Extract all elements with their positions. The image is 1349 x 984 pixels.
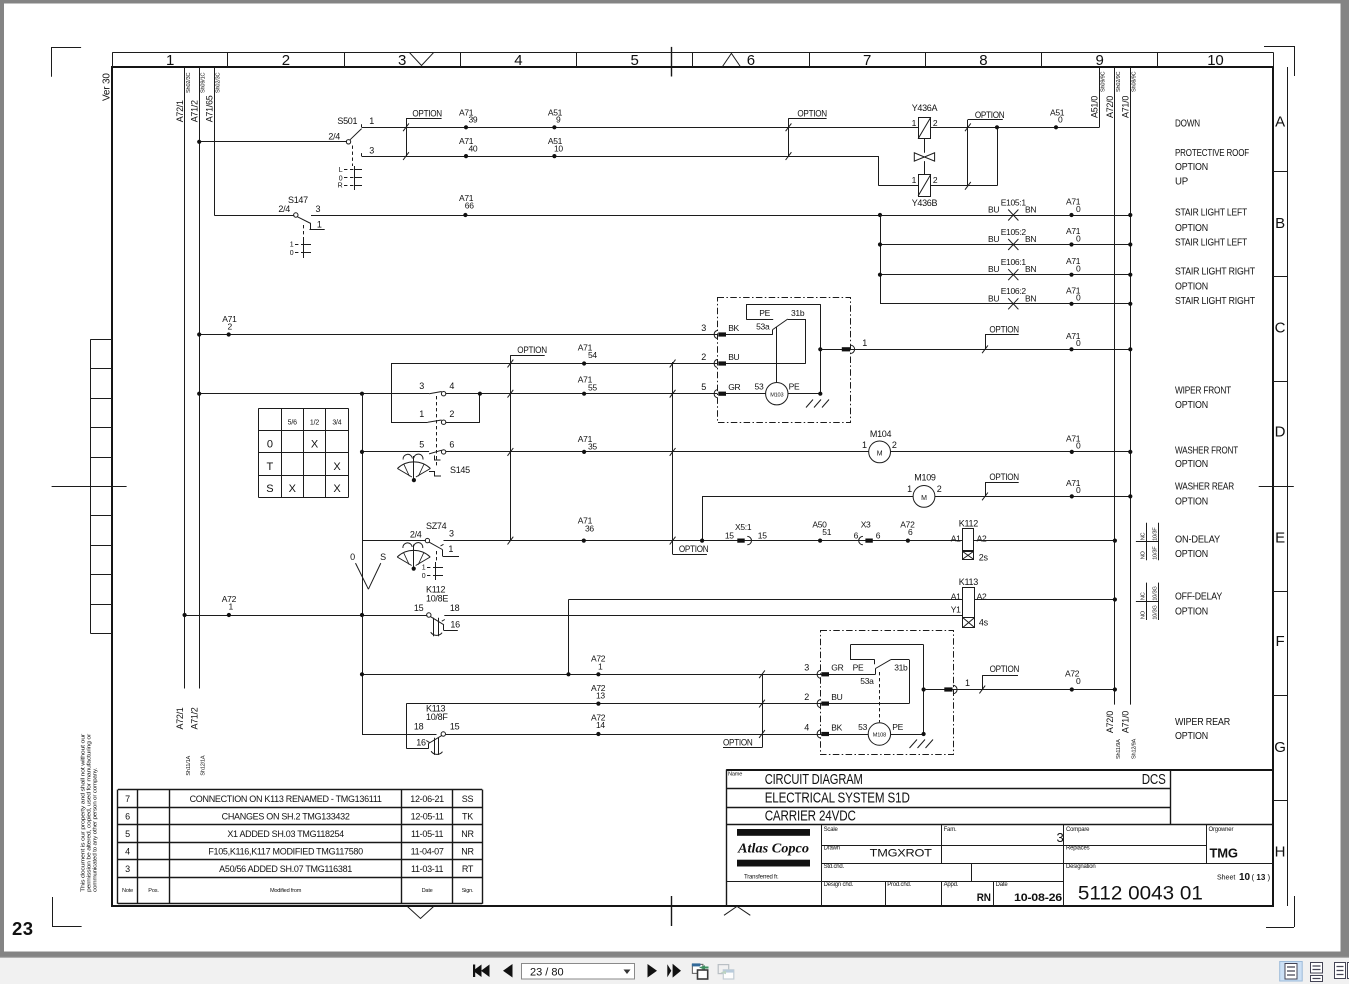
svg-text:Compare: Compare: [1066, 827, 1090, 833]
svg-text:Sheet: Sheet: [1217, 875, 1235, 882]
svg-text:K113: K113: [959, 577, 978, 587]
svg-text:0: 0: [1076, 338, 1081, 348]
svg-text:OPTION: OPTION: [517, 345, 547, 355]
svg-text:Fam.: Fam.: [944, 827, 957, 833]
svg-text:A71/0: A71/0: [1121, 96, 1131, 118]
svg-text:9: 9: [556, 115, 561, 125]
svg-text:OPTION: OPTION: [1175, 496, 1208, 507]
svg-text:2: 2: [933, 175, 938, 185]
svg-text:OPTION: OPTION: [1175, 607, 1208, 618]
svg-text:7: 7: [863, 52, 871, 69]
svg-text:0: 0: [1076, 676, 1081, 686]
svg-text:6: 6: [908, 527, 913, 537]
svg-text:Sh08/9C: Sh08/9C: [1132, 71, 1138, 92]
svg-text:14: 14: [596, 720, 605, 730]
svg-text:6: 6: [449, 440, 454, 450]
svg-text:A71/2: A71/2: [189, 707, 199, 729]
svg-text:4: 4: [449, 381, 454, 391]
svg-text:Sh09/1C: Sh09/1C: [200, 72, 206, 93]
svg-text:10: 10: [1239, 872, 1251, 883]
svg-text:A1: A1: [951, 592, 961, 602]
svg-text:2: 2: [449, 409, 454, 419]
svg-text:15: 15: [450, 722, 460, 732]
svg-text:10/3F: 10/3F: [1153, 527, 1159, 541]
svg-text:12-05-11: 12-05-11: [411, 812, 444, 822]
svg-text:STAIR LIGHT LEFT: STAIR LIGHT LEFT: [1175, 237, 1247, 248]
svg-text:D: D: [1275, 424, 1286, 441]
svg-text:BU: BU: [988, 205, 999, 215]
svg-text:2: 2: [282, 52, 290, 69]
svg-text:2s: 2s: [979, 553, 989, 563]
svg-text:Date: Date: [996, 882, 1009, 888]
svg-text:X: X: [311, 439, 319, 451]
svg-text:18: 18: [414, 722, 424, 732]
svg-text:OPTION: OPTION: [412, 108, 442, 118]
svg-text:12-06-21: 12-06-21: [410, 794, 444, 804]
svg-text:Pos.: Pos.: [148, 888, 159, 894]
svg-text:BU: BU: [988, 264, 999, 274]
svg-text:WIPER REAR: WIPER REAR: [1175, 717, 1230, 728]
svg-text:1: 1: [598, 661, 603, 671]
svg-text:Y436B: Y436B: [912, 198, 938, 208]
svg-text:NC: NC: [1141, 532, 1147, 540]
svg-text:16: 16: [416, 737, 426, 747]
svg-text:Appd.: Appd.: [944, 882, 959, 888]
svg-text:4: 4: [125, 847, 130, 857]
svg-text:Sh12/9A: Sh12/9A: [1132, 738, 1138, 759]
svg-text:BN: BN: [1025, 293, 1036, 303]
svg-text:TMGXROT: TMGXROT: [870, 848, 933, 860]
svg-text:A71/2: A71/2: [189, 100, 199, 122]
svg-text:10/8F: 10/8F: [426, 712, 448, 722]
svg-text:CHANGES ON SH.2 TMG133432: CHANGES ON SH.2 TMG133432: [222, 812, 350, 822]
svg-text:Atlas Copco: Atlas Copco: [737, 841, 809, 856]
svg-text:E106:1: E106:1: [1001, 257, 1027, 267]
svg-text:A2: A2: [977, 592, 987, 602]
svg-text:10-08-26: 10-08-26: [1014, 892, 1062, 904]
svg-text:10/3G: 10/3G: [1153, 586, 1159, 600]
svg-text:Drawn: Drawn: [824, 846, 840, 852]
svg-text:STAIR LIGHT RIGHT: STAIR LIGHT RIGHT: [1175, 266, 1255, 277]
svg-text:Scale: Scale: [824, 827, 839, 833]
svg-text:1: 1: [912, 175, 917, 185]
svg-text:OPTION: OPTION: [990, 664, 1020, 674]
svg-text:PROTECTIVE ROOF: PROTECTIVE ROOF: [1175, 148, 1249, 159]
svg-text:X5:1: X5:1: [735, 522, 752, 532]
svg-text:Modified from: Modified from: [270, 888, 302, 894]
svg-text:1: 1: [369, 116, 374, 126]
svg-text:2: 2: [892, 440, 897, 450]
svg-text:0: 0: [339, 175, 343, 182]
svg-text:3: 3: [804, 663, 809, 673]
svg-text:10/3G: 10/3G: [1153, 605, 1159, 619]
svg-text:M103: M103: [770, 392, 783, 398]
svg-text:6: 6: [854, 530, 859, 540]
svg-text:Orgowner: Orgowner: [1209, 827, 1234, 833]
svg-text:2: 2: [701, 352, 706, 362]
svg-text:E106:2: E106:2: [1001, 286, 1027, 296]
svg-text:2: 2: [937, 484, 942, 494]
svg-text:Name: Name: [728, 772, 742, 778]
svg-text:3: 3: [449, 529, 454, 539]
svg-text:40: 40: [469, 143, 478, 153]
svg-text:Transferred fr.: Transferred fr.: [744, 875, 779, 881]
svg-text:A2: A2: [977, 534, 987, 544]
svg-text:S: S: [266, 483, 273, 495]
svg-text:5: 5: [419, 440, 424, 450]
svg-text:4: 4: [804, 722, 809, 732]
svg-text:BU: BU: [728, 352, 739, 362]
svg-text:7: 7: [125, 794, 130, 804]
svg-text:Sh11/1A: Sh11/1A: [186, 755, 192, 775]
svg-text:1: 1: [290, 242, 294, 249]
svg-text:55: 55: [588, 382, 597, 392]
svg-text:1: 1: [317, 220, 322, 230]
svg-text:23 / 80: 23 / 80: [530, 966, 564, 978]
svg-text:10/3F: 10/3F: [1153, 546, 1159, 560]
svg-text:OPTION: OPTION: [1175, 400, 1208, 411]
svg-text:BN: BN: [1025, 234, 1036, 244]
svg-text:Design chd.: Design chd.: [824, 882, 854, 888]
svg-text:B: B: [1275, 215, 1285, 232]
svg-text:M104: M104: [870, 429, 892, 439]
svg-text:NO: NO: [1141, 610, 1147, 619]
svg-text:1: 1: [965, 678, 970, 688]
svg-text:L: L: [339, 167, 343, 174]
svg-text:G: G: [1274, 739, 1285, 756]
svg-text:DCS: DCS: [1142, 771, 1166, 788]
svg-text:9: 9: [1096, 52, 1104, 69]
svg-text:CARRIER 24VDC: CARRIER 24VDC: [765, 807, 856, 824]
svg-text:1: 1: [862, 338, 867, 348]
svg-text:1: 1: [419, 409, 424, 419]
svg-text:F105,K116,K117 MODIFIED TMG117: F105,K116,K117 MODIFIED TMG117580: [208, 847, 363, 857]
svg-text:BK: BK: [728, 323, 739, 333]
svg-text:BN: BN: [1025, 264, 1036, 274]
svg-text:BN: BN: [1025, 205, 1036, 215]
svg-text:2/4: 2/4: [410, 530, 422, 540]
svg-text:11-05-11: 11-05-11: [411, 829, 444, 839]
svg-text:PE: PE: [789, 381, 800, 391]
svg-text:GR: GR: [728, 382, 740, 392]
svg-text:X: X: [333, 483, 341, 495]
svg-text:STAIR LIGHT LEFT: STAIR LIGHT LEFT: [1175, 208, 1247, 219]
svg-text:Designation: Designation: [1066, 864, 1096, 870]
svg-text:A72/0: A72/0: [1105, 96, 1115, 118]
svg-text:Date: Date: [422, 888, 433, 894]
svg-text:Sh02/3C: Sh02/3C: [186, 72, 192, 93]
svg-text:2/4: 2/4: [328, 131, 340, 141]
svg-text:0: 0: [1076, 441, 1081, 451]
svg-text:36: 36: [585, 523, 594, 533]
svg-text:OPTION: OPTION: [989, 472, 1019, 482]
svg-text:A51/0: A51/0: [1090, 96, 1100, 118]
svg-text:F: F: [1276, 633, 1285, 650]
svg-text:PE: PE: [892, 722, 903, 732]
svg-text:A72/1: A72/1: [175, 707, 185, 729]
svg-text:A71/65: A71/65: [204, 95, 214, 122]
svg-text:SS: SS: [462, 794, 474, 804]
svg-text:A1: A1: [951, 534, 961, 544]
svg-text:0: 0: [1058, 115, 1063, 125]
svg-text:( 13 ): ( 13 ): [1252, 873, 1271, 882]
svg-text:23: 23: [12, 918, 34, 939]
svg-text:3: 3: [369, 145, 374, 155]
svg-text:Y1: Y1: [951, 605, 961, 615]
svg-text:3: 3: [316, 204, 321, 214]
svg-text:15: 15: [725, 530, 734, 540]
svg-text:T: T: [267, 461, 274, 473]
svg-text:OPTION: OPTION: [975, 110, 1005, 120]
svg-text:C: C: [1275, 320, 1286, 337]
svg-text:K112: K112: [959, 519, 978, 529]
svg-text:1: 1: [862, 440, 867, 450]
svg-text:4: 4: [514, 52, 522, 69]
svg-text:S147: S147: [288, 195, 308, 205]
svg-text:OPTION: OPTION: [797, 108, 827, 118]
svg-text:OPTION: OPTION: [679, 544, 709, 554]
svg-text:S: S: [380, 552, 386, 562]
svg-text:OPTION: OPTION: [1175, 282, 1208, 293]
svg-text:2: 2: [933, 118, 938, 128]
svg-text:0: 0: [1076, 204, 1081, 214]
svg-text:Sign.: Sign.: [462, 888, 474, 894]
svg-text:S145: S145: [450, 465, 470, 475]
svg-text:51: 51: [822, 527, 831, 537]
svg-text:E: E: [1275, 529, 1285, 546]
svg-text:OPTION: OPTION: [1175, 549, 1208, 560]
svg-text:X1 ADDED SH.03 TMG118254: X1 ADDED SH.03 TMG118254: [227, 829, 344, 839]
svg-text:Ver 30: Ver 30: [102, 73, 113, 101]
svg-text:M: M: [877, 450, 883, 457]
svg-text:RN: RN: [977, 892, 991, 904]
svg-text:OPTION: OPTION: [723, 737, 753, 747]
svg-text:15: 15: [758, 530, 767, 540]
svg-text:NC: NC: [1141, 592, 1147, 600]
svg-text:DOWN: DOWN: [1175, 118, 1200, 129]
svg-text:Note: Note: [122, 888, 133, 894]
svg-text:0: 0: [267, 439, 273, 451]
svg-text:BU: BU: [988, 293, 999, 303]
svg-text:Sh02/3C: Sh02/3C: [215, 72, 221, 93]
svg-text:A71/0: A71/0: [1121, 711, 1131, 733]
svg-text:1: 1: [422, 565, 426, 572]
svg-text:5112 0043 01: 5112 0043 01: [1078, 883, 1203, 905]
svg-text:A50/56 ADDED SH.07 TMG116381: A50/56 ADDED SH.07 TMG116381: [219, 864, 352, 874]
svg-text:R: R: [338, 183, 343, 190]
svg-text:Sh11/9A: Sh11/9A: [1116, 739, 1122, 759]
svg-text:5: 5: [125, 829, 130, 839]
svg-text:10: 10: [1207, 52, 1223, 69]
svg-text:BU: BU: [988, 234, 999, 244]
svg-text:53: 53: [755, 381, 764, 391]
svg-text:3: 3: [125, 864, 130, 874]
svg-text:0: 0: [1076, 264, 1081, 274]
svg-text:communicated to any other pers: communicated to any other person or comp…: [93, 767, 99, 892]
svg-text:PE: PE: [759, 308, 770, 318]
svg-text:BK: BK: [831, 722, 842, 732]
svg-text:5: 5: [631, 52, 639, 69]
svg-text:E105:2: E105:2: [1001, 227, 1027, 237]
svg-text:11-04-07: 11-04-07: [411, 847, 444, 857]
svg-text:NO: NO: [1141, 550, 1147, 559]
svg-text:M108: M108: [873, 732, 886, 738]
svg-text:4s: 4s: [979, 618, 989, 628]
svg-text:10/8E: 10/8E: [426, 593, 448, 603]
svg-text:WASHER FRONT: WASHER FRONT: [1175, 446, 1238, 457]
svg-text:3: 3: [419, 381, 424, 391]
svg-text:A72/1: A72/1: [175, 100, 185, 122]
svg-text:Std.chd.: Std.chd.: [824, 864, 845, 870]
svg-text:CIRCUIT DIAGRAM: CIRCUIT DIAGRAM: [765, 771, 863, 788]
svg-text:3: 3: [1057, 830, 1064, 845]
svg-text:31b: 31b: [894, 662, 908, 672]
svg-text:Replaces: Replaces: [1066, 846, 1090, 852]
svg-text:TMG: TMG: [1210, 846, 1238, 861]
svg-text:WASHER REAR: WASHER REAR: [1175, 482, 1234, 493]
svg-text:3: 3: [701, 323, 706, 333]
svg-text:53: 53: [858, 722, 867, 732]
svg-text:Sh09/9C: Sh09/9C: [1101, 71, 1107, 92]
svg-text:OPTION: OPTION: [1175, 162, 1208, 173]
svg-text:OPTION: OPTION: [1175, 223, 1208, 234]
svg-text:M109: M109: [914, 473, 936, 483]
svg-text:0: 0: [1076, 233, 1081, 243]
svg-text:STAIR LIGHT RIGHT: STAIR LIGHT RIGHT: [1175, 296, 1255, 307]
svg-text:1: 1: [448, 544, 453, 554]
svg-text:E105:1: E105:1: [1001, 197, 1027, 207]
svg-text:31b: 31b: [791, 308, 805, 318]
svg-text:6: 6: [876, 530, 881, 540]
svg-text:53a: 53a: [860, 676, 874, 686]
svg-text:Y436A: Y436A: [912, 103, 938, 113]
svg-text:18: 18: [450, 603, 460, 613]
svg-text:OPTION: OPTION: [989, 325, 1019, 335]
svg-text:TK: TK: [462, 812, 473, 822]
svg-text:1/2: 1/2: [310, 420, 319, 427]
svg-text:RT: RT: [462, 864, 474, 874]
svg-text:1: 1: [229, 602, 234, 612]
svg-text:0: 0: [1076, 485, 1081, 495]
svg-text:2/4: 2/4: [278, 204, 290, 214]
svg-text:A: A: [1275, 113, 1285, 130]
svg-text:3/4: 3/4: [332, 420, 341, 427]
svg-text:NR: NR: [461, 847, 474, 857]
svg-text:66: 66: [465, 201, 474, 211]
svg-text:SZ74: SZ74: [426, 521, 447, 531]
svg-text:1: 1: [912, 118, 917, 128]
svg-text:0: 0: [1076, 293, 1081, 303]
svg-text:3: 3: [398, 52, 406, 69]
svg-text:5: 5: [701, 382, 706, 392]
svg-text:0: 0: [290, 250, 294, 257]
svg-text:8: 8: [979, 52, 987, 69]
svg-text:39: 39: [469, 115, 478, 125]
svg-text:Prod.chd.: Prod.chd.: [887, 882, 911, 888]
svg-text:10: 10: [554, 143, 563, 153]
svg-text:53a: 53a: [756, 322, 770, 332]
svg-text:X: X: [289, 483, 297, 495]
svg-text:Sh12/1A: Sh12/1A: [200, 755, 206, 776]
svg-text:6: 6: [747, 52, 755, 69]
svg-text:6: 6: [125, 812, 130, 822]
svg-text:2: 2: [228, 322, 233, 332]
svg-text:A72/0: A72/0: [1105, 711, 1115, 733]
svg-text:35: 35: [588, 442, 597, 452]
svg-text:OPTION: OPTION: [1175, 731, 1208, 742]
svg-text:H: H: [1275, 844, 1286, 861]
svg-text:0: 0: [422, 573, 426, 580]
svg-text:1: 1: [907, 484, 912, 494]
svg-text:NR: NR: [461, 829, 474, 839]
svg-text:S501: S501: [337, 116, 357, 126]
svg-text:0: 0: [350, 552, 355, 562]
svg-text:1: 1: [166, 52, 174, 69]
svg-text:15: 15: [414, 603, 424, 613]
svg-text:WIPER FRONT: WIPER FRONT: [1175, 385, 1231, 396]
svg-text:PE: PE: [853, 662, 864, 672]
svg-text:OFF-DELAY: OFF-DELAY: [1175, 592, 1222, 603]
svg-text:13: 13: [596, 691, 605, 701]
svg-text:CONNECTION ON K113 RENAMED - T: CONNECTION ON K113 RENAMED - TMG136111: [190, 794, 382, 804]
svg-text:Sh02/9C: Sh02/9C: [1116, 71, 1122, 92]
svg-text:M: M: [921, 495, 927, 502]
svg-text:11-03-11: 11-03-11: [411, 864, 444, 874]
svg-text:X3: X3: [861, 519, 871, 529]
svg-text:5/6: 5/6: [288, 420, 297, 427]
svg-text:ON-DELAY: ON-DELAY: [1175, 534, 1220, 545]
svg-text:X: X: [333, 461, 341, 473]
svg-text:OPTION: OPTION: [1175, 459, 1208, 470]
svg-text:UP: UP: [1175, 177, 1189, 188]
svg-text:BU: BU: [831, 692, 842, 702]
svg-text:54: 54: [588, 350, 597, 360]
svg-text:GR: GR: [831, 663, 843, 673]
svg-text:ELECTRICAL SYSTEM S1D: ELECTRICAL SYSTEM S1D: [765, 789, 910, 806]
svg-text:16: 16: [450, 620, 460, 630]
svg-text:2: 2: [804, 692, 809, 702]
